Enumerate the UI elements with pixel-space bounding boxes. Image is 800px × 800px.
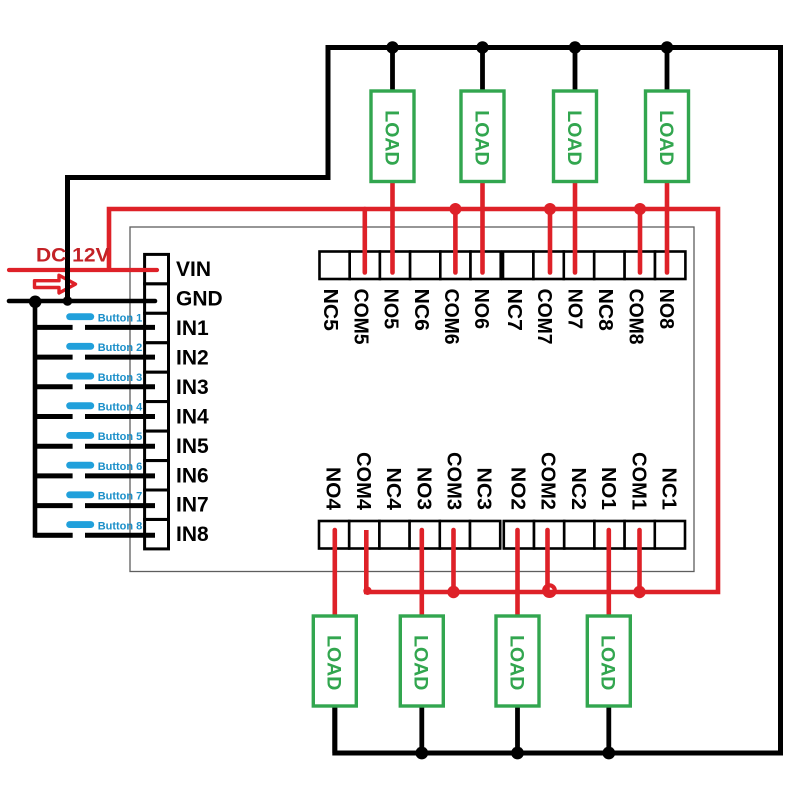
svg-text:Button 2: Button 2 (98, 342, 143, 354)
svg-text:Button 5: Button 5 (98, 431, 143, 443)
terminal strip top (relays 5-8) (320, 252, 686, 280)
wire: button 6 left leg (33, 473, 73, 478)
wire: red 12V bus (left riser, top bus, right riser, bottom bus into COM4) (109, 209, 718, 592)
svg-text:LOAD: LOAD (505, 635, 527, 690)
svg-text:NC5: NC5 (319, 289, 341, 331)
svg-text:LOAD: LOAD (655, 110, 677, 165)
svg-text:NO7: NO7 (564, 289, 586, 330)
wire: button 2 leg to IN2 (85, 355, 155, 360)
svg-text:COM8: COM8 (624, 289, 646, 345)
wire: button 1 leg to IN1 (85, 325, 155, 330)
pushbutton Button 5 actuator (66, 432, 94, 439)
svg-text:DC 12V: DC 12V (36, 244, 110, 266)
junction: red bus / COM7 (544, 203, 556, 215)
svg-text:Button 8: Button 8 (98, 520, 143, 532)
pushbutton Button 1 actuator (66, 313, 94, 320)
svg-text:NC6: NC6 (410, 289, 432, 331)
wire: NO1 to LOAD 1 (606, 530, 611, 620)
svg-text:NO1: NO1 (597, 467, 619, 510)
svg-text:VIN: VIN (176, 258, 211, 281)
wire: LOAD 1 to black bus (606, 702, 611, 753)
junction: red bus / COM1 (633, 586, 645, 598)
junction: red bus / COM8 (634, 203, 646, 215)
pushbutton Button 7 actuator (66, 491, 94, 498)
wire: button 4 left leg (33, 414, 73, 419)
svg-text:COM7: COM7 (533, 289, 555, 345)
svg-text:Button 1: Button 1 (98, 312, 143, 324)
wire: LOAD 4 to black bus (332, 702, 337, 753)
wire: COM5 to red bus (362, 209, 367, 273)
svg-text:LOAD: LOAD (323, 635, 345, 690)
pushbutton Button 6 actuator (66, 462, 94, 469)
wire: LOAD 2 to black bus (515, 702, 520, 753)
svg-text:Button 4: Button 4 (98, 402, 143, 414)
svg-text:NO6: NO6 (470, 289, 492, 330)
wire: black bus to LOAD 8 (665, 48, 670, 96)
pushbutton Button 2 actuator (66, 343, 94, 350)
load LOAD1 box (587, 616, 630, 706)
wire: button 6 leg to IN6 (85, 473, 155, 478)
svg-text:COM6: COM6 (440, 289, 462, 345)
wire: NO2 to LOAD 2 (515, 530, 520, 620)
junction: red bus / COM3 (447, 586, 459, 598)
wire: ground lead into GND (9, 299, 155, 304)
svg-text:NO8: NO8 (655, 289, 677, 330)
junction: red bus / COM6 (449, 203, 461, 215)
wire: button 8 leg to IN8 (85, 533, 155, 538)
arrow: supply direction (35, 275, 76, 293)
wire: COM2 to red bus (545, 530, 550, 592)
wire: button 7 left leg (33, 503, 73, 508)
wire: LOAD 6 to NO6 (480, 178, 485, 273)
svg-text:NC1: NC1 (658, 468, 680, 511)
junction: black bus / LOAD 1 (602, 747, 615, 760)
load LOAD3 box (400, 616, 443, 706)
pin header (VIN GND IN1-IN8) (145, 254, 169, 549)
junction: black bus / LOAD 2 (511, 747, 524, 760)
svg-text:NO3: NO3 (412, 467, 434, 510)
svg-text:COM4: COM4 (352, 452, 374, 511)
svg-text:Button 3: Button 3 (98, 372, 143, 384)
load LOAD2 box (496, 616, 539, 706)
wire: button 1 left leg (33, 325, 73, 330)
junction: GND / button bus (29, 296, 42, 309)
junction: GND / top loop riser (63, 296, 73, 306)
svg-text:COM5: COM5 (349, 289, 371, 345)
svg-text:NC7: NC7 (503, 289, 525, 331)
wire: COM6 to red bus (453, 209, 458, 273)
wire: black bus to LOAD 6 (480, 48, 485, 96)
junction: black bus / LOAD 6 (476, 41, 488, 53)
wire: COM1 to red bus (637, 530, 642, 592)
load LOAD4 box (313, 616, 356, 706)
svg-text:LOAD: LOAD (563, 110, 585, 165)
svg-text:IN2: IN2 (176, 347, 209, 370)
wire: button 5 leg to IN5 (85, 444, 155, 449)
pushbutton Button 8 actuator (66, 521, 94, 528)
wire: black bus to LOAD 5 (390, 48, 395, 96)
wire: button 3 leg to IN3 (85, 384, 155, 389)
svg-text:NC3: NC3 (473, 468, 495, 511)
svg-text:IN4: IN4 (176, 405, 209, 428)
terminal strip bottom (relays 1-4) (319, 521, 685, 549)
junction: red bus / COM2 (544, 585, 555, 596)
wire: COM3 to red bus (451, 530, 456, 592)
pushbutton Button 3 actuator (66, 373, 94, 380)
wire: LOAD 3 to black bus (419, 702, 424, 753)
svg-text:NO2: NO2 (507, 467, 529, 510)
junction: red corner blob at COM4 (363, 587, 371, 595)
svg-text:LOAD: LOAD (470, 110, 492, 165)
wire: +12V lead into VIN (9, 268, 157, 272)
svg-text:GND: GND (176, 288, 223, 311)
wire: NO4 to LOAD 4 (332, 530, 337, 620)
junction: black bus / LOAD 3 (415, 747, 428, 760)
svg-text:Button 6: Button 6 (98, 461, 143, 473)
wire: button common bus (35, 302, 73, 536)
svg-text:COM1: COM1 (627, 452, 649, 510)
load LOAD5 box (371, 91, 414, 182)
svg-text:IN6: IN6 (176, 464, 209, 487)
wire: button 8 left leg (35, 533, 73, 538)
wire: NO3 to LOAD 3 (419, 530, 424, 620)
wire: button 7 leg to IN7 (85, 503, 155, 508)
svg-text:COM2: COM2 (537, 452, 559, 510)
wire: button 3 left leg (33, 384, 73, 389)
svg-text:LOAD: LOAD (410, 635, 432, 690)
svg-text:Button 7: Button 7 (98, 491, 143, 503)
wire: LOAD 7 to NO7 (573, 178, 578, 273)
svg-text:COM3: COM3 (443, 452, 465, 510)
wire: LOAD 5 to NO5 (390, 178, 395, 273)
svg-text:LOAD: LOAD (380, 110, 402, 165)
load LOAD6 box (461, 91, 504, 182)
wire: button 5 left leg (33, 444, 73, 449)
svg-text:NO4: NO4 (322, 467, 344, 511)
load LOAD7 box (554, 91, 597, 182)
svg-text:IN8: IN8 (176, 523, 209, 546)
junction: black bus / LOAD 5 (386, 41, 398, 53)
wire: button 4 leg to IN4 (85, 414, 155, 419)
pushbutton Button 4 actuator (66, 402, 94, 409)
junction: black bus / LOAD 7 (569, 41, 581, 53)
svg-text:NC2: NC2 (567, 468, 589, 511)
wire: button 2 left leg (33, 355, 73, 360)
svg-text:NC8: NC8 (594, 289, 616, 331)
svg-text:NC4: NC4 (382, 468, 404, 511)
wire: black bus to LOAD 7 (573, 48, 578, 96)
wire: LOAD 8 to NO8 (665, 178, 670, 273)
wire: COM8 to red bus (638, 209, 643, 273)
svg-text:LOAD: LOAD (597, 635, 619, 690)
svg-text:IN5: IN5 (176, 435, 209, 458)
svg-text:IN1: IN1 (176, 317, 209, 340)
junction: black bus / LOAD 8 (661, 41, 673, 53)
wire: black GND bus (left riser, top bus, right riser, bottom bus) (68, 48, 781, 754)
svg-text:IN3: IN3 (176, 376, 209, 399)
load LOAD8 box (646, 91, 689, 182)
relay module board outline (130, 227, 694, 572)
svg-text:IN7: IN7 (176, 494, 209, 517)
svg-text:NO5: NO5 (380, 289, 402, 330)
wire: COM7 to red bus (548, 209, 553, 273)
